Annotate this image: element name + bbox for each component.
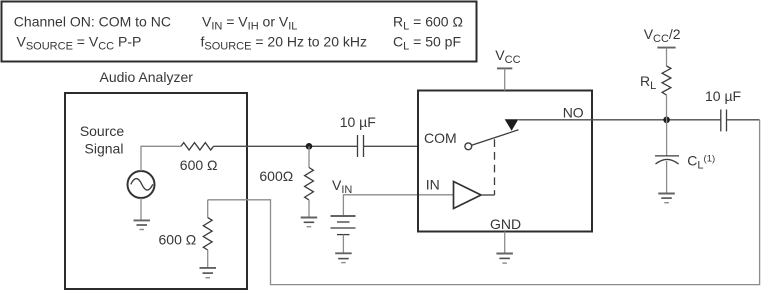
svg-text:10 µF: 10 µF (340, 114, 376, 130)
svg-text:IN: IN (426, 177, 440, 193)
svg-text:Channel ON: COM to NC: Channel ON: COM to NC (14, 14, 171, 30)
svg-text:COM: COM (424, 130, 457, 146)
svg-text:10 µF: 10 µF (705, 88, 741, 104)
svg-text:600 Ω: 600 Ω (159, 231, 197, 247)
svg-text:600Ω: 600Ω (259, 168, 293, 184)
svg-text:600 Ω: 600 Ω (180, 157, 218, 173)
svg-text:Source: Source (80, 123, 125, 139)
svg-text:NO: NO (563, 105, 584, 121)
svg-text:GND: GND (490, 216, 521, 232)
svg-text:Audio Analyzer: Audio Analyzer (100, 69, 194, 85)
svg-text:Signal: Signal (85, 141, 124, 157)
